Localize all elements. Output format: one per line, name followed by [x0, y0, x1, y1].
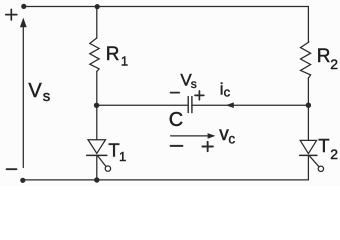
polarity + (capacitor right): [195, 91, 204, 100]
svg-text:2: 2: [330, 56, 338, 72]
wire bottom rail: [23, 179, 309, 181]
wire left branch upper: [96, 7, 98, 39]
label R1: [106, 44, 128, 68]
current arrow i_c: [226, 102, 234, 108]
label Vs (source): [28, 80, 50, 105]
node terminal - (bottom-left): [20, 178, 25, 183]
label v_c: [219, 124, 235, 147]
resistor R1: [90, 38, 99, 72]
wire T1 cathode to bottom rail: [96, 155, 98, 180]
label C: [169, 109, 183, 131]
svg-text:c: c: [228, 132, 235, 147]
thyristor T2: [300, 140, 324, 171]
label T1: [108, 139, 126, 164]
label - (source negative): [7, 168, 17, 170]
wire T2 cathode to bottom rail: [307, 155, 309, 180]
svg-text:1: 1: [119, 149, 126, 164]
wire left branch middle: [96, 72, 98, 140]
svg-text:C: C: [169, 109, 183, 131]
svg-text:s: s: [191, 77, 197, 91]
thyristor T1: [87, 140, 111, 172]
resistor R2: [301, 42, 311, 78]
svg-text:R: R: [106, 44, 120, 65]
node terminal + (top-left): [21, 4, 26, 9]
junction middle-right node: [306, 103, 311, 108]
svg-text:1: 1: [121, 54, 128, 69]
label Vs (capacitor voltage): [180, 71, 196, 91]
svg-text:c: c: [224, 84, 231, 99]
polarity - (v_c left): [171, 145, 183, 147]
voltage arrow v_c: [171, 133, 216, 139]
label R2: [317, 46, 339, 72]
source Vs arrow: [20, 18, 27, 168]
junction top of R1 branch: [95, 4, 100, 9]
wire middle right (capacitor to node B): [192, 104, 309, 106]
label T2: [318, 135, 338, 162]
label i_c: [220, 80, 231, 100]
label + (source positive): [6, 9, 17, 20]
junction middle-left node: [94, 103, 99, 108]
svg-text:2: 2: [330, 146, 338, 162]
wire right branch middle: [307, 78, 309, 140]
wire right branch upper: [307, 7, 309, 43]
polarity + (v_c right): [202, 142, 213, 151]
svg-text:s: s: [43, 88, 51, 105]
capacitor C: [188, 97, 192, 113]
wire middle left (node A to capacitor): [97, 104, 188, 106]
polarity - (capacitor left): [171, 92, 180, 94]
svg-text:V: V: [28, 80, 42, 102]
wire top rail: [24, 6, 309, 8]
svg-text:R: R: [317, 46, 331, 67]
svg-text:T: T: [318, 135, 329, 156]
junction bottom of T1: [94, 177, 99, 182]
